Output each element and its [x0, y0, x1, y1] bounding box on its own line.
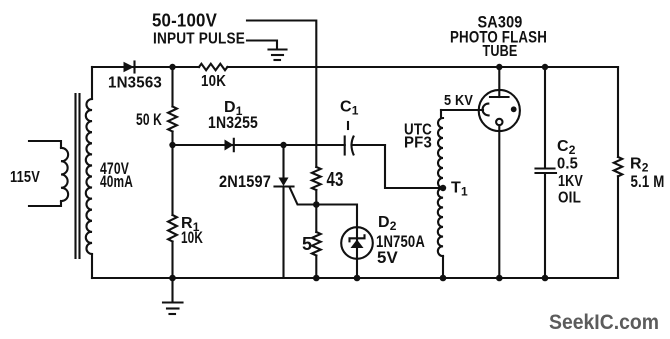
wire bottom ground rail	[92, 277, 618, 279]
ground (input pulse)	[269, 50, 287, 61]
resistor 50K	[136, 67, 177, 145]
svg-text:SeekIC.com: SeekIC.com	[549, 310, 659, 334]
svg-text:1N3255: 1N3255	[208, 114, 258, 132]
transformer core	[76, 94, 80, 258]
node junction D2 / bottom rail	[354, 275, 361, 282]
svg-text:1N3563: 1N3563	[108, 75, 162, 92]
transformer primary winding 115V	[10, 141, 68, 206]
wire top supply rail	[92, 66, 618, 68]
wire input pulse return to ground	[247, 41, 277, 50]
svg-text:40mA: 40mA	[100, 173, 133, 191]
svg-text:10K: 10K	[201, 73, 226, 90]
svg-text:5: 5	[302, 234, 312, 254]
node junction 43 / 5 / SCR gate / D2	[313, 201, 320, 208]
diode 1N3563	[108, 62, 162, 92]
node junction D1 / C1 / SCR anode	[280, 142, 286, 148]
transformer secondary winding 470V 40mA	[86, 99, 133, 278]
wire 50-100V input pulse feed	[247, 21, 316, 168]
wire D1 branch	[173, 144, 284, 146]
svg-text:5.1 M: 5.1 M	[631, 172, 665, 191]
svg-text:43: 43	[327, 168, 344, 191]
svg-text:50 K: 50 K	[136, 110, 162, 129]
node junction top rail / 50K	[169, 64, 175, 70]
svg-text:50-100V: 50-100V	[152, 11, 217, 31]
trigger transformer T1 UTC PF3	[404, 110, 468, 278]
resistor 10K (series, horizontal)	[199, 64, 227, 90]
svg-text:2N1597: 2N1597	[219, 173, 271, 191]
svg-text:5 KV: 5 KV	[444, 92, 473, 109]
node junction flash tube anode / top rail	[496, 64, 502, 70]
wire C1 to T1 tap	[385, 145, 443, 188]
node junction C2 / top rail	[542, 64, 548, 70]
photo flash tube SA309	[450, 14, 547, 279]
node junction 5 / bottom rail	[313, 275, 320, 282]
resistor 5	[302, 205, 321, 279]
svg-text:INPUT PULSE: INPUT PULSE	[153, 31, 245, 48]
capacitor C2 0.5 1KV OIL	[536, 67, 584, 278]
node junction C2 / bottom rail	[542, 275, 549, 282]
diode D1 1N3255	[208, 99, 258, 151]
wire T1 top to flash tube trigger electrode	[441, 109, 483, 111]
node junction 50K / D1 / R1	[169, 142, 175, 148]
zener diode D2 1N750A	[316, 205, 425, 279]
svg-text:5V: 5V	[377, 249, 398, 267]
thyristor 2N1597	[219, 145, 316, 278]
capacitor C1	[284, 99, 386, 155]
svg-text:115V: 115V	[10, 169, 40, 186]
ground (main, below bottom rail)	[163, 278, 183, 314]
node junction bottom rail / R1 / ground	[169, 275, 176, 282]
resistor R1 10K	[168, 145, 203, 278]
node junction T1 / bottom rail	[440, 275, 447, 282]
resistor 43	[312, 167, 344, 205]
svg-text:OIL: OIL	[558, 190, 581, 207]
node junction flash tube cathode / bottom rail	[496, 275, 503, 282]
svg-text:1KV: 1KV	[558, 173, 583, 190]
resistor R2 5.1M	[614, 67, 665, 278]
node junction T1 tap	[440, 185, 446, 191]
wire left leg from top rail down to transformer secondary	[91, 67, 93, 99]
svg-text:PF3: PF3	[404, 135, 432, 152]
svg-text:10K: 10K	[181, 229, 203, 247]
svg-text:0.5: 0.5	[557, 156, 578, 173]
svg-text:TUBE: TUBE	[483, 43, 518, 60]
